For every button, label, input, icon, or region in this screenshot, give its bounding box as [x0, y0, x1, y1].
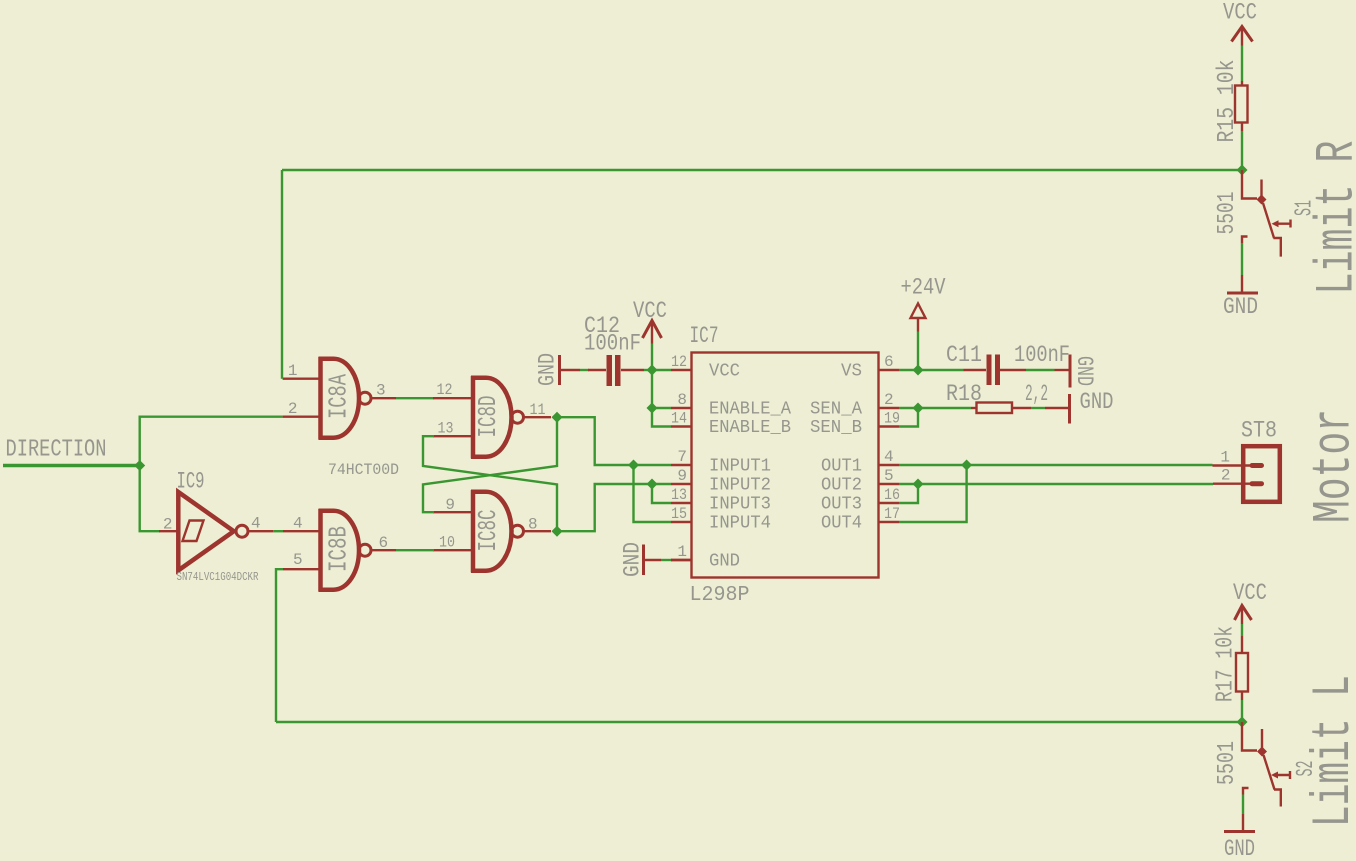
- svg-text:16: 16: [884, 486, 900, 504]
- wire junction to IC9 input: [140, 466, 160, 532]
- svg-text:ENABLE_A: ENABLE_A: [709, 400, 791, 420]
- svg-text:8: 8: [677, 391, 687, 409]
- wire IC8B out to IC8C in10: [396, 549, 434, 551]
- svg-text:2: 2: [288, 400, 298, 418]
- wire top long Limit R net: [282, 169, 1242, 171]
- pin 5 OUT2 IC7: [821, 467, 899, 496]
- svg-text:11: 11: [530, 401, 546, 419]
- svg-text:12: 12: [437, 381, 453, 399]
- junction node DIRECTION: [134, 460, 145, 471]
- wire cross B: IC8C out to IC8D in13: [423, 436, 557, 531]
- wire S1 to GND: [1241, 243, 1243, 275]
- svg-text:GND: GND: [709, 552, 740, 572]
- svg-text:6: 6: [379, 534, 389, 552]
- svg-text:OUT2: OUT2: [821, 476, 862, 496]
- capacitor C12 100nF: [584, 313, 644, 386]
- power symbol VCC (top right): [1223, 0, 1257, 46]
- pin 14 ENABLE_B IC7: [671, 410, 791, 439]
- svg-text:Limit L: Limit L: [1304, 675, 1356, 827]
- svg-text:IC8C: IC8C: [473, 510, 503, 552]
- svg-text:R18: R18: [946, 381, 982, 407]
- wire SEN_A to SEN_B: [899, 408, 918, 427]
- pin 16 OUT3 IC7: [821, 486, 900, 515]
- svg-text:9: 9: [445, 496, 455, 514]
- svg-text:GND: GND: [535, 353, 561, 386]
- resistor R17 10k: [1213, 626, 1249, 702]
- svg-text:GND: GND: [1223, 294, 1258, 320]
- junction node SEN_A: [913, 403, 924, 414]
- wire VS to +24V node: [899, 369, 964, 371]
- svg-text:19: 19: [884, 410, 900, 428]
- svg-text:R15 10k: R15 10k: [1214, 60, 1241, 143]
- svg-text:R17 10k: R17 10k: [1213, 626, 1240, 702]
- svg-text:INPUT4: INPUT4: [709, 514, 771, 534]
- NAND gate IC8A: [283, 357, 396, 439]
- inverter IC9: [159, 469, 273, 585]
- svg-text:SN74LVC1G04DCKR: SN74LVC1G04DCKR: [177, 570, 259, 584]
- svg-text:VCC: VCC: [709, 362, 740, 382]
- wire C12 to junction: [644, 369, 652, 371]
- wire IC8C out to INPUT2: [557, 484, 671, 531]
- NAND gate IC8D: [433, 376, 551, 458]
- svg-text:VCC: VCC: [1223, 0, 1257, 26]
- NAND gate IC8C: [433, 490, 551, 572]
- wire R18 to GND: [1031, 407, 1045, 409]
- svg-text:GND: GND: [620, 542, 646, 577]
- wire pin8 and pin14: [652, 408, 671, 427]
- svg-text:74HCT00D: 74HCT00D: [328, 461, 399, 479]
- wire R15 to junction: [1241, 131, 1243, 170]
- svg-text:OUT3: OUT3: [821, 495, 862, 515]
- svg-text:1: 1: [677, 543, 687, 561]
- wire R17 to junction: [1241, 700, 1243, 722]
- junction node top right: [1237, 165, 1248, 176]
- svg-text:ENABLE_B: ENABLE_B: [709, 418, 791, 438]
- svg-text:INPUT3: INPUT3: [709, 495, 771, 515]
- svg-text:Motor: Motor: [1305, 409, 1356, 523]
- junction node OUT2: [913, 479, 924, 490]
- svg-text:5: 5: [884, 467, 894, 485]
- wire C11 to GND: [1026, 369, 1055, 371]
- junction node INPUT1: [628, 460, 639, 471]
- wire IC9 out to IC8B pin4: [273, 530, 283, 532]
- power symbol VCC at C12: [633, 298, 667, 344]
- wire INPUT1 to INPUT4: [634, 465, 672, 522]
- wire IC8A out to IC8D in12: [396, 397, 434, 399]
- wire OUT1 to ST8 pin1: [899, 464, 1213, 466]
- IC IC7 L298P box: [690, 323, 879, 607]
- svg-text:IC7: IC7: [690, 323, 719, 349]
- pin 7 INPUT1 IC7: [671, 448, 771, 477]
- svg-text:1: 1: [288, 362, 298, 380]
- switch S1: [1214, 170, 1319, 257]
- wire SEN_A to R18: [899, 407, 971, 409]
- pin 4 OUT1 IC7: [821, 448, 899, 477]
- junction node IC8D out: [552, 412, 563, 423]
- svg-text:4: 4: [293, 515, 303, 533]
- svg-text:GND: GND: [1071, 356, 1097, 386]
- svg-text:100nF: 100nF: [1014, 342, 1070, 368]
- svg-text:10: 10: [439, 534, 455, 552]
- wire IC8D out to INPUT1: [557, 417, 671, 465]
- svg-text:GND: GND: [1080, 389, 1114, 415]
- wire VCC to R17: [1241, 624, 1243, 636]
- wire S2 to GND: [1242, 795, 1244, 815]
- resistor R15 10k: [1214, 60, 1248, 143]
- wire OUT2 to ST8 pin2: [899, 483, 1213, 485]
- svg-text:VCC: VCC: [1233, 580, 1267, 606]
- svg-text:INPUT1: INPUT1: [709, 457, 771, 477]
- svg-text:1: 1: [1220, 449, 1230, 467]
- svg-text:2: 2: [884, 391, 894, 409]
- pin 9 INPUT2 IC7: [671, 467, 771, 496]
- pin 13 INPUT3 IC7: [671, 486, 771, 515]
- svg-text:IC8D: IC8D: [473, 396, 503, 438]
- svg-text:ST8: ST8: [1241, 418, 1277, 444]
- wire GND to pin1: [661, 559, 672, 561]
- wire VCC down to pin12 node: [651, 344, 653, 371]
- pin 12 VCC IC7: [671, 353, 740, 382]
- ground GND (top right): [1223, 275, 1258, 320]
- svg-text:SEN_A: SEN_A: [810, 400, 862, 420]
- svg-text:L298P: L298P: [690, 584, 750, 607]
- svg-text:OUT4: OUT4: [821, 514, 862, 534]
- wire IC8B pin5 down to bottom wire: [276, 569, 283, 722]
- pin 17 OUT4 IC7: [821, 505, 900, 534]
- pin 6 VS IC7: [841, 353, 899, 382]
- svg-text:2: 2: [163, 516, 173, 534]
- wire DIRECTION (thick): [3, 464, 140, 468]
- switch S2: [1214, 722, 1320, 807]
- svg-text:SEN_B: SEN_B: [810, 418, 862, 438]
- svg-text:3: 3: [376, 382, 386, 400]
- NAND gate IC8B: [283, 509, 396, 591]
- power symbol VCC (bottom right): [1233, 580, 1267, 624]
- junction node pin8: [647, 403, 658, 414]
- svg-text:OUT1: OUT1: [821, 457, 862, 477]
- svg-text:15: 15: [671, 505, 687, 523]
- wire OUT1 to OUT4: [899, 465, 967, 522]
- ground GND right of C11: [1055, 355, 1098, 388]
- wire junction to IC8A pin2: [140, 417, 283, 466]
- svg-text:C11: C11: [946, 342, 982, 368]
- junction node IC8C out: [552, 526, 563, 537]
- ground GND right of R18: [1045, 389, 1114, 424]
- ground GND (bottom right): [1224, 814, 1255, 861]
- pin 8 ENABLE_A IC7: [671, 391, 791, 420]
- svg-text:14: 14: [671, 410, 687, 428]
- svg-text:Limit R: Limit R: [1308, 141, 1356, 295]
- svg-text:2,2: 2,2: [1025, 381, 1048, 407]
- wire IC8A pin1 up to top wire: [281, 170, 283, 379]
- svg-text:5: 5: [293, 551, 303, 569]
- svg-text:5501: 5501: [1214, 192, 1241, 235]
- svg-text:DIRECTION: DIRECTION: [6, 437, 107, 464]
- wire VCC to R15: [1241, 46, 1243, 82]
- pin 2 SEN_A IC7: [810, 391, 899, 420]
- pin 15 INPUT4 IC7: [671, 505, 771, 534]
- svg-text:2: 2: [1221, 467, 1231, 485]
- svg-text:5501: 5501: [1214, 741, 1241, 785]
- wire OUT2 to OUT3: [899, 484, 918, 503]
- svg-text:4: 4: [884, 448, 894, 466]
- wire INPUT2 to INPUT3: [652, 484, 671, 503]
- svg-text:13: 13: [438, 420, 454, 438]
- svg-text:IC8B: IC8B: [324, 526, 354, 572]
- resistor R18 2,2: [946, 381, 1048, 413]
- connector ST8: [1213, 418, 1280, 502]
- junction node INPUT2: [647, 479, 658, 490]
- wire pin12: [652, 369, 671, 371]
- junction node VS: [913, 365, 924, 376]
- svg-text:17: 17: [884, 505, 900, 523]
- svg-text:VCC: VCC: [633, 298, 667, 324]
- capacitor C11 100nF: [946, 342, 1070, 385]
- svg-text:7: 7: [677, 448, 687, 466]
- svg-text:6: 6: [884, 353, 894, 371]
- svg-text:8: 8: [528, 516, 538, 534]
- wire node down to pin8: [651, 370, 653, 408]
- junction node OUT1: [961, 460, 972, 471]
- ground GND at C12: [535, 353, 581, 386]
- pin 19 SEN_B IC7: [810, 410, 900, 439]
- power symbol +24V: [901, 275, 946, 332]
- svg-text:9: 9: [677, 467, 687, 485]
- svg-text:100nF: 100nF: [584, 331, 641, 357]
- svg-text:IC8A: IC8A: [324, 374, 354, 419]
- wire cross A: IC8D out to IC8C in9: [423, 417, 557, 512]
- svg-text:INPUT2: INPUT2: [709, 476, 771, 496]
- svg-text:+24V: +24V: [901, 275, 946, 301]
- wire GND to C12: [580, 369, 589, 371]
- wire +24V to VS: [917, 332, 919, 371]
- pin 1 GND IC7: [671, 543, 740, 572]
- junction node bottom right: [1237, 717, 1248, 728]
- ground GND at IC7 pin1: [620, 542, 662, 577]
- wire bottom long Limit L net: [276, 721, 1242, 723]
- svg-text:IC9: IC9: [177, 469, 205, 495]
- svg-text:VS: VS: [841, 362, 862, 382]
- svg-text:13: 13: [671, 486, 687, 504]
- svg-text:GND: GND: [1224, 836, 1255, 861]
- svg-text:12: 12: [671, 353, 687, 371]
- junction node VCC/pin12: [647, 365, 658, 376]
- svg-text:4: 4: [251, 515, 261, 533]
